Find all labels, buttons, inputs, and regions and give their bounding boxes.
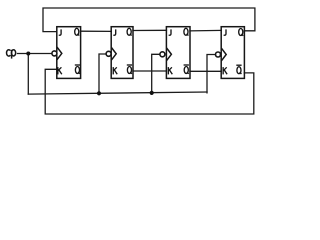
wire Qbar3 to K4: [190, 70, 221, 72]
label Q FF1: [75, 28, 80, 35]
label Qbar FF1: [75, 65, 80, 74]
label J FF3: [169, 29, 171, 35]
wire clock bus: [28, 92, 207, 94]
node junction dot clock bus FF2: [97, 91, 101, 95]
wire top feedback Q4 to J1: [43, 8, 255, 32]
label Qbar FF4: [236, 65, 241, 74]
label Q FF3: [184, 28, 189, 35]
wire clock branch FF3: [152, 54, 160, 93]
label Q FF2: [127, 28, 131, 35]
flip-flop FF2 box: [111, 27, 133, 79]
label K FF3: [168, 67, 172, 74]
flip-flop FF1 clock bubble: [52, 51, 57, 56]
wire cp input: [18, 53, 52, 55]
flip-flop FF2 clock bubble: [106, 51, 111, 56]
wire Qbar2 to K3: [133, 70, 166, 72]
flip-flop FF3 clock bubble: [160, 52, 165, 57]
flip-flop FF1 clock wedge: [57, 47, 62, 60]
label Q FF4: [239, 29, 244, 36]
flip-flop FF4 clock bubble: [216, 52, 221, 57]
label cp input: [7, 50, 16, 59]
flip-flop FF1 box: [57, 27, 81, 79]
node junction dot on cp line: [26, 52, 30, 56]
wire clock branch FF2: [99, 54, 106, 93]
label K FF1: [58, 67, 62, 74]
flip-flop FF2 clock wedge: [111, 48, 116, 61]
wire Q3 to J4: [190, 29, 221, 32]
node junction dot clock bus FF3: [150, 91, 154, 95]
label J FF1: [59, 29, 61, 35]
label Qbar FF3: [184, 65, 189, 74]
label Qbar FF2: [127, 65, 132, 74]
wire bottom feedback Qbar4 to K1: [45, 69, 254, 114]
wire Q1 to J2: [81, 30, 112, 32]
wire clock branch FF4: [207, 55, 215, 93]
flip-flop FF3 clock wedge: [167, 48, 172, 61]
label J FF2: [113, 29, 115, 35]
wire Q2 to J3: [133, 29, 166, 31]
flip-flop FF4 clock wedge: [221, 48, 226, 61]
flip-flop FF4 box: [221, 27, 244, 79]
label K FF4: [223, 67, 227, 74]
label K FF2: [113, 67, 117, 74]
flip-flop FF3 box: [166, 27, 190, 79]
label J FF4: [224, 29, 226, 35]
wire clock drop from cp: [27, 54, 29, 95]
